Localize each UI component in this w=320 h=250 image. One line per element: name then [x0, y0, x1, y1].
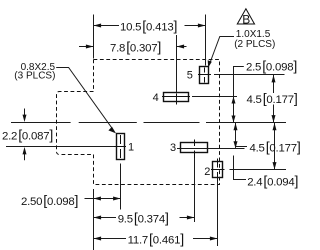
- extension line pad5 top: [205, 15, 207, 66]
- svg-text:9.5[0.374]: 9.5[0.374]: [118, 210, 169, 226]
- svg-text:2.4[0.094]: 2.4[0.094]: [247, 173, 298, 189]
- extension line pad2 bottom: [217, 181, 219, 246]
- svg-text:2: 2: [204, 166, 210, 178]
- svg-text:10.5[0.413]: 10.5[0.413]: [120, 19, 177, 35]
- svg-text:3: 3: [170, 142, 176, 154]
- svg-text:(2 PLCS): (2 PLCS): [234, 39, 275, 50]
- pad 5: [198, 67, 211, 84]
- leader 0.8X2.5 to pad 1: [56, 68, 112, 130]
- pad 4: [162, 93, 190, 105]
- svg-text:5: 5: [187, 70, 193, 82]
- node pad1 center row: [6, 146, 126, 148]
- wire pad4 row extension right: [192, 96, 237, 98]
- svg-text:11.7[0.461]: 11.7[0.461]: [128, 231, 184, 247]
- dimension 2.5 right (hooked text): [232, 67, 244, 123]
- svg-text:4.5[0.177]: 4.5[0.177]: [250, 139, 301, 155]
- dimension 2.50: [85, 197, 121, 201]
- dimension 2.2 left: [23, 109, 27, 161]
- svg-text:4.5[0.177]: 4.5[0.177]: [247, 91, 298, 107]
- extension line pad1 bottom: [120, 164, 122, 210]
- body outline dashed: [57, 60, 220, 185]
- svg-text:4: 4: [153, 92, 159, 104]
- centerline (horizontal axis, dash-dot): [11, 122, 286, 124]
- svg-text:2.50[0.098]: 2.50[0.098]: [21, 193, 78, 209]
- pad 1: [114, 134, 126, 160]
- extension line pad3 bottom: [194, 158, 196, 222]
- extension line bottom-left: [93, 189, 95, 250]
- dimension 2.4 (hooked text): [234, 156, 247, 180]
- svg-text:(3 PLCS): (3 PLCS): [14, 71, 55, 82]
- leader 1.0X1.5 to pad 5: [210, 37, 234, 64]
- revision triangle B: [237, 9, 254, 24]
- pad 3: [177, 140, 245, 159]
- svg-text:1: 1: [128, 142, 134, 154]
- dimension 4.5 tall (centerline to pad2 row): [273, 123, 277, 170]
- svg-text:7.8[0.307]: 7.8[0.307]: [110, 39, 161, 55]
- dimension 11.7: [94, 237, 218, 241]
- dimension 4.5 first (pad5 row to centerline): [272, 75, 276, 123]
- svg-text:B: B: [242, 12, 250, 26]
- dimension 7.8: [79, 45, 187, 49]
- extension line top-left: [93, 15, 95, 59]
- extension line pad4 top: [176, 35, 178, 93]
- dimension 9.5: [94, 216, 195, 220]
- wire pad5 row extension right: [214, 74, 285, 76]
- svg-text:2.5[0.098]: 2.5[0.098]: [246, 58, 297, 74]
- wire pad2 row extension right: [230, 169, 287, 171]
- pad 2: [211, 159, 225, 182]
- dimension 10.5: [94, 24, 206, 28]
- dimension 4.5 second (hooked text, centerline to pad3 row): [234, 123, 248, 148]
- svg-text:2.2[0.087]: 2.2[0.087]: [2, 127, 53, 143]
